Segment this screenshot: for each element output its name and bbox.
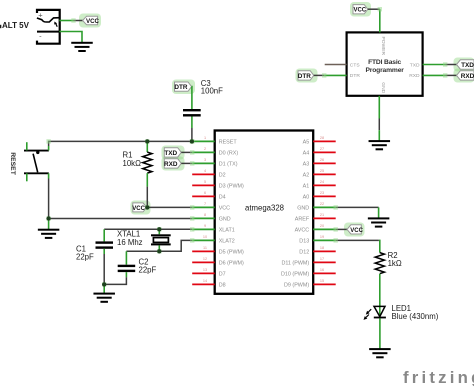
svg-text:atmega328: atmega328: [245, 203, 284, 212]
svg-text:RXD: RXD: [409, 73, 420, 79]
svg-text:RXD: RXD: [164, 161, 178, 168]
svg-text:XTAL1: XTAL1: [117, 229, 140, 238]
svg-text:VCC: VCC: [350, 228, 363, 234]
svg-text:9: 9: [204, 224, 206, 228]
svg-text:VCC: VCC: [86, 18, 100, 25]
svg-text:DTR: DTR: [298, 73, 312, 80]
svg-text:D8: D8: [219, 282, 226, 288]
svg-text:17: 17: [320, 257, 324, 261]
svg-text:28: 28: [320, 136, 324, 140]
svg-text:12: 12: [203, 257, 207, 261]
svg-text:4: 4: [204, 169, 206, 173]
svg-text:TXD: TXD: [164, 150, 177, 157]
svg-text:20: 20: [320, 224, 324, 228]
svg-text:21: 21: [320, 213, 324, 217]
svg-text:1: 1: [204, 136, 206, 140]
svg-text:25: 25: [320, 169, 324, 173]
svg-text:26: 26: [320, 158, 324, 162]
svg-text:19: 19: [320, 235, 324, 239]
svg-text:D5 (PWM): D5 (PWM): [219, 249, 244, 255]
svg-text:POWER: POWER: [380, 37, 386, 56]
svg-text:D11 (PWM): D11 (PWM): [281, 260, 309, 266]
svg-text:D7: D7: [219, 271, 226, 277]
svg-text:10: 10: [203, 235, 207, 239]
svg-text:16 Mhz: 16 Mhz: [117, 238, 143, 247]
svg-text:24: 24: [320, 180, 324, 184]
svg-text:XLAT1: XLAT1: [219, 227, 235, 233]
svg-text:22pF: 22pF: [76, 253, 94, 262]
svg-text:TXD: TXD: [461, 62, 474, 69]
svg-text:RESET: RESET: [219, 139, 238, 145]
svg-text:23: 23: [320, 191, 324, 195]
svg-text:7: 7: [204, 202, 206, 206]
svg-text:GND: GND: [297, 205, 309, 211]
svg-text:D13: D13: [299, 238, 309, 244]
svg-text:A1: A1: [303, 183, 310, 189]
svg-text:GND: GND: [380, 82, 386, 93]
svg-text:A0: A0: [303, 194, 310, 200]
svg-text:18: 18: [320, 246, 324, 250]
svg-text:D2: D2: [219, 172, 226, 178]
svg-text:VCC: VCC: [219, 205, 230, 211]
svg-text:DTR: DTR: [350, 73, 361, 79]
svg-text:GND: GND: [219, 216, 231, 222]
svg-text:Programmer: Programmer: [365, 67, 404, 74]
svg-text:A5: A5: [303, 139, 310, 145]
svg-text:D1 (TX): D1 (TX): [219, 161, 238, 167]
svg-text:RESET: RESET: [9, 152, 16, 176]
svg-text:DTR: DTR: [174, 84, 188, 91]
svg-text:TXD: TXD: [410, 62, 420, 68]
svg-text:-: -: [39, 31, 42, 40]
svg-text:D3 (PWM): D3 (PWM): [219, 183, 244, 189]
svg-text:D10 (PWM): D10 (PWM): [281, 271, 309, 277]
svg-text:1kΩ: 1kΩ: [388, 259, 402, 268]
svg-text:D12: D12: [299, 249, 309, 255]
svg-text:A4: A4: [303, 150, 310, 156]
svg-text:3: 3: [204, 158, 206, 162]
svg-text:D9 (PWM): D9 (PWM): [284, 282, 309, 288]
svg-text:8: 8: [204, 213, 206, 217]
svg-text:22: 22: [320, 202, 324, 206]
svg-text:D6 (PWM): D6 (PWM): [219, 260, 244, 266]
svg-text:16: 16: [320, 268, 324, 272]
svg-text:11: 11: [203, 246, 207, 250]
svg-text:VCC: VCC: [353, 8, 366, 14]
svg-text:2: 2: [204, 147, 206, 151]
svg-text:13: 13: [203, 268, 207, 272]
svg-text:D4: D4: [219, 194, 226, 200]
svg-text:A3: A3: [303, 161, 310, 167]
svg-text:AREF: AREF: [295, 216, 310, 222]
svg-text:A2: A2: [303, 172, 310, 178]
svg-text:+: +: [38, 11, 43, 20]
svg-text:27: 27: [320, 147, 324, 151]
svg-text:5: 5: [204, 180, 206, 184]
svg-text:XLAT2: XLAT2: [219, 238, 235, 244]
svg-text:14: 14: [203, 279, 207, 283]
svg-text:D0 (RX): D0 (RX): [219, 150, 239, 156]
svg-text:22pF: 22pF: [139, 266, 157, 275]
svg-text:fritzing: fritzing: [403, 368, 474, 387]
svg-text:ALT 5V: ALT 5V: [2, 21, 30, 30]
svg-text:FTDI Basic: FTDI Basic: [368, 59, 401, 66]
svg-text:6: 6: [204, 191, 206, 195]
svg-text:10kΩ: 10kΩ: [123, 159, 142, 168]
svg-text:Blue (430nm): Blue (430nm): [392, 312, 439, 321]
svg-text:AVCC: AVCC: [295, 227, 310, 233]
svg-text:100nF: 100nF: [201, 87, 223, 96]
svg-text:CTS: CTS: [350, 62, 361, 68]
svg-text:VCC: VCC: [132, 206, 145, 212]
svg-text:RXD: RXD: [461, 73, 474, 80]
svg-text:15: 15: [320, 279, 324, 283]
